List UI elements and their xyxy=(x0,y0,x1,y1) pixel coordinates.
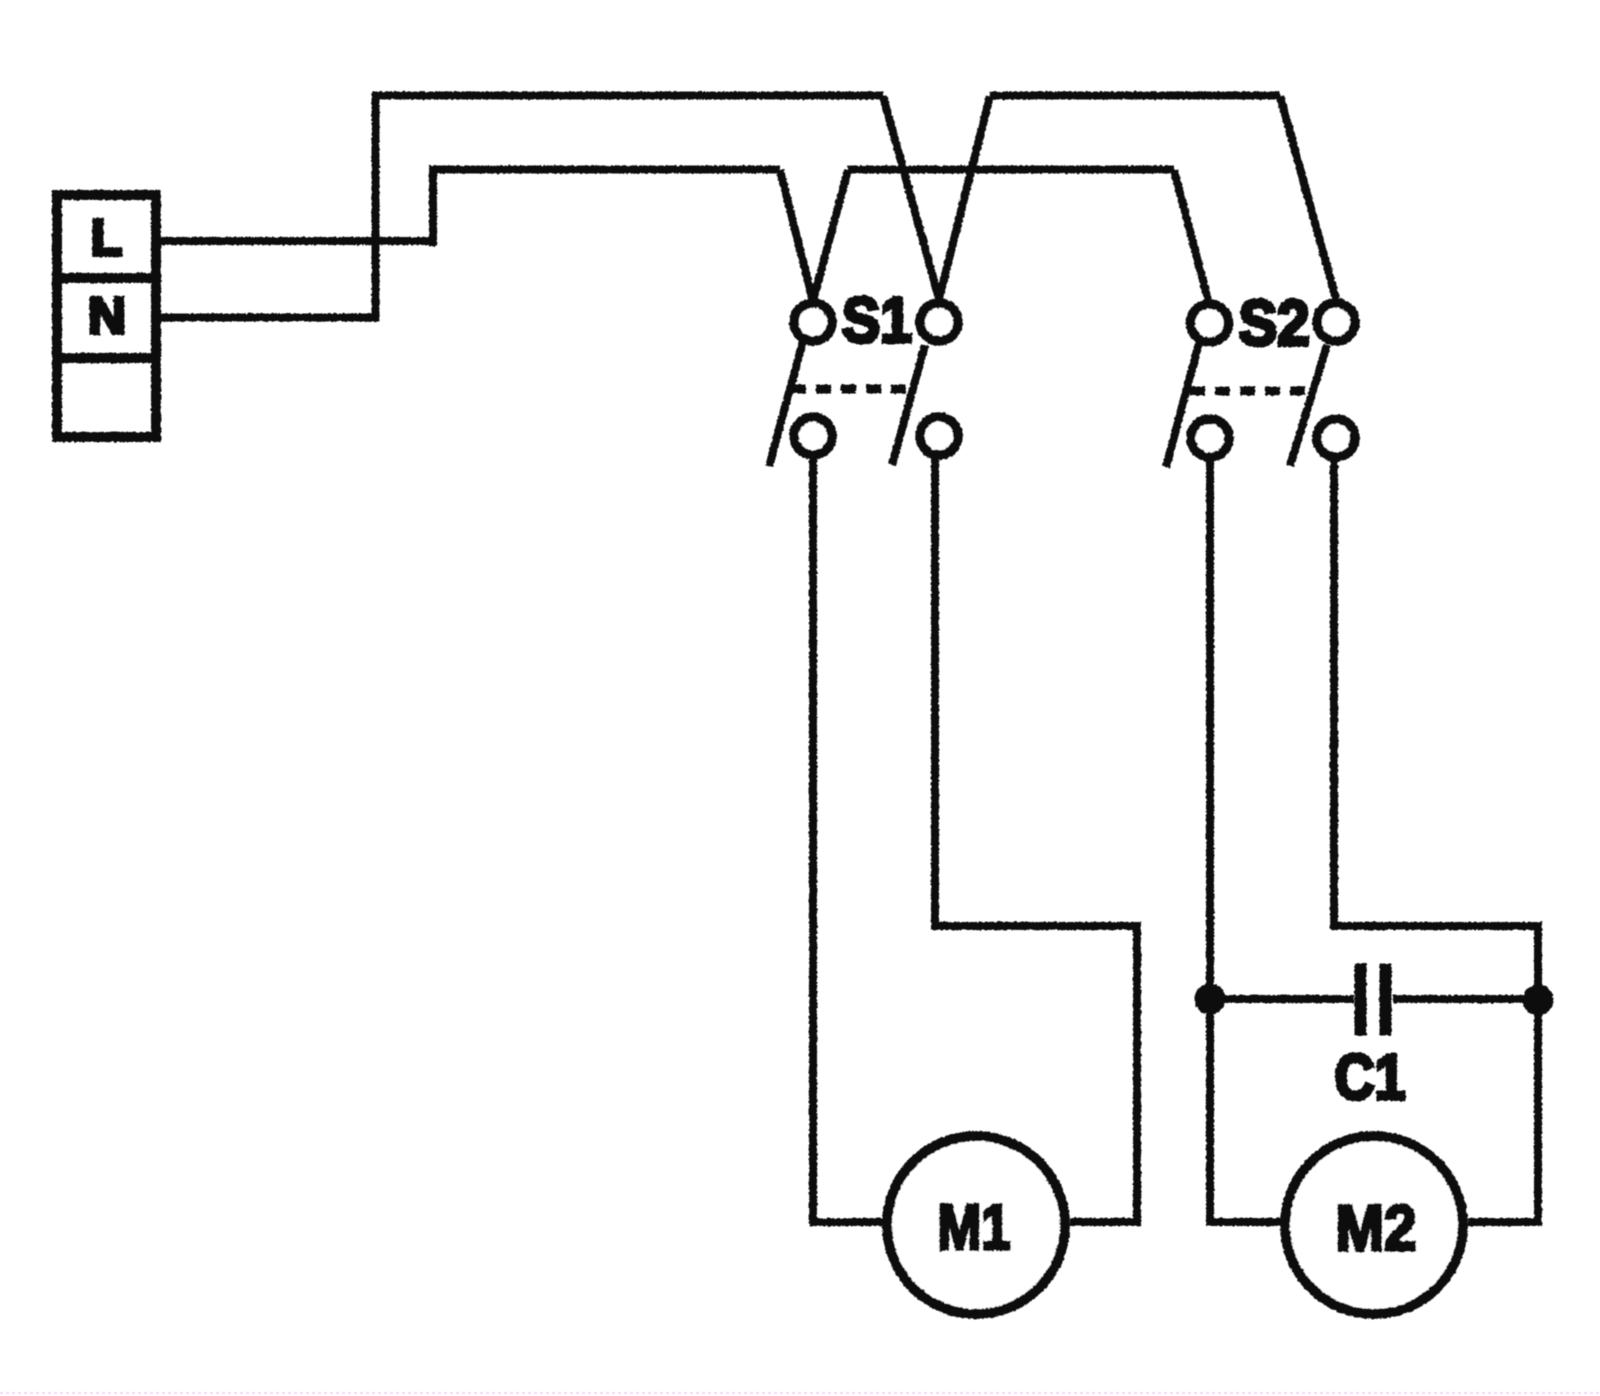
svg-text:N: N xyxy=(88,287,126,344)
svg-text:L: L xyxy=(91,209,122,266)
svg-text:S1: S1 xyxy=(842,284,912,356)
svg-text:M2: M2 xyxy=(1336,1192,1417,1264)
svg-text:C1: C1 xyxy=(1335,1041,1406,1113)
svg-text:S2: S2 xyxy=(1239,287,1310,359)
svg-text:M1: M1 xyxy=(938,1191,1011,1263)
